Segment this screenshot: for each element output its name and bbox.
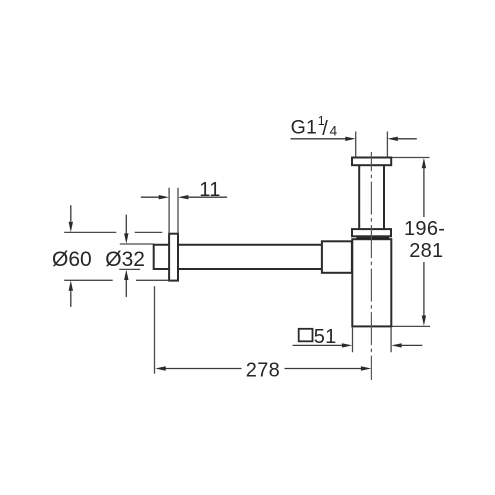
278 left extension line [154, 286, 156, 374]
svg-text:Ø60: Ø60 [52, 248, 92, 271]
svg-text:281: 281 [409, 240, 443, 262]
svg-text:196-: 196- [404, 218, 445, 240]
seal ring [356, 237, 389, 239]
centerline [370, 152, 372, 380]
square symbol [299, 329, 313, 342]
top flange [352, 158, 391, 166]
svg-text:/: / [322, 118, 328, 140]
11 dimension extension lines [169, 188, 178, 234]
trap body [352, 239, 391, 326]
Ø60 bottom extension line [64, 279, 168, 281]
196-281 label [404, 218, 445, 262]
G1 1/4 leader arrow [291, 137, 417, 141]
196-281 dimension line [422, 158, 426, 326]
196-281 top reference line [392, 157, 430, 159]
Ø32 arrow up [124, 270, 128, 297]
Ø32 arrow down [124, 215, 128, 244]
riser pipe [359, 165, 384, 229]
wall flange [169, 234, 178, 281]
G1 1/4 label [291, 114, 338, 140]
Ø60 arrow up [69, 281, 73, 307]
svg-text:51: 51 [314, 326, 337, 348]
196-281 bottom reference line [392, 325, 430, 327]
svg-text:278: 278 [246, 360, 280, 382]
svg-text:4: 4 [330, 123, 338, 138]
Ø60 arrow down [69, 205, 73, 232]
square-51 extension lines [353, 328, 392, 353]
Ø60 top extension line [64, 231, 162, 233]
horizontal pipe [154, 244, 323, 270]
Ø32 top extension line [120, 243, 154, 245]
thread extension lines [356, 132, 388, 158]
lower flange of riser [352, 229, 391, 236]
278 dimension line [155, 366, 371, 370]
11 dimension arrows [141, 195, 227, 199]
square-51 dimension arrows [293, 343, 423, 347]
svg-text:Ø32: Ø32 [105, 248, 145, 271]
Ø32 bottom extension line [119, 268, 140, 270]
compression nut [322, 241, 352, 272]
svg-text:11: 11 [199, 179, 220, 201]
svg-text:G1: G1 [291, 117, 318, 139]
